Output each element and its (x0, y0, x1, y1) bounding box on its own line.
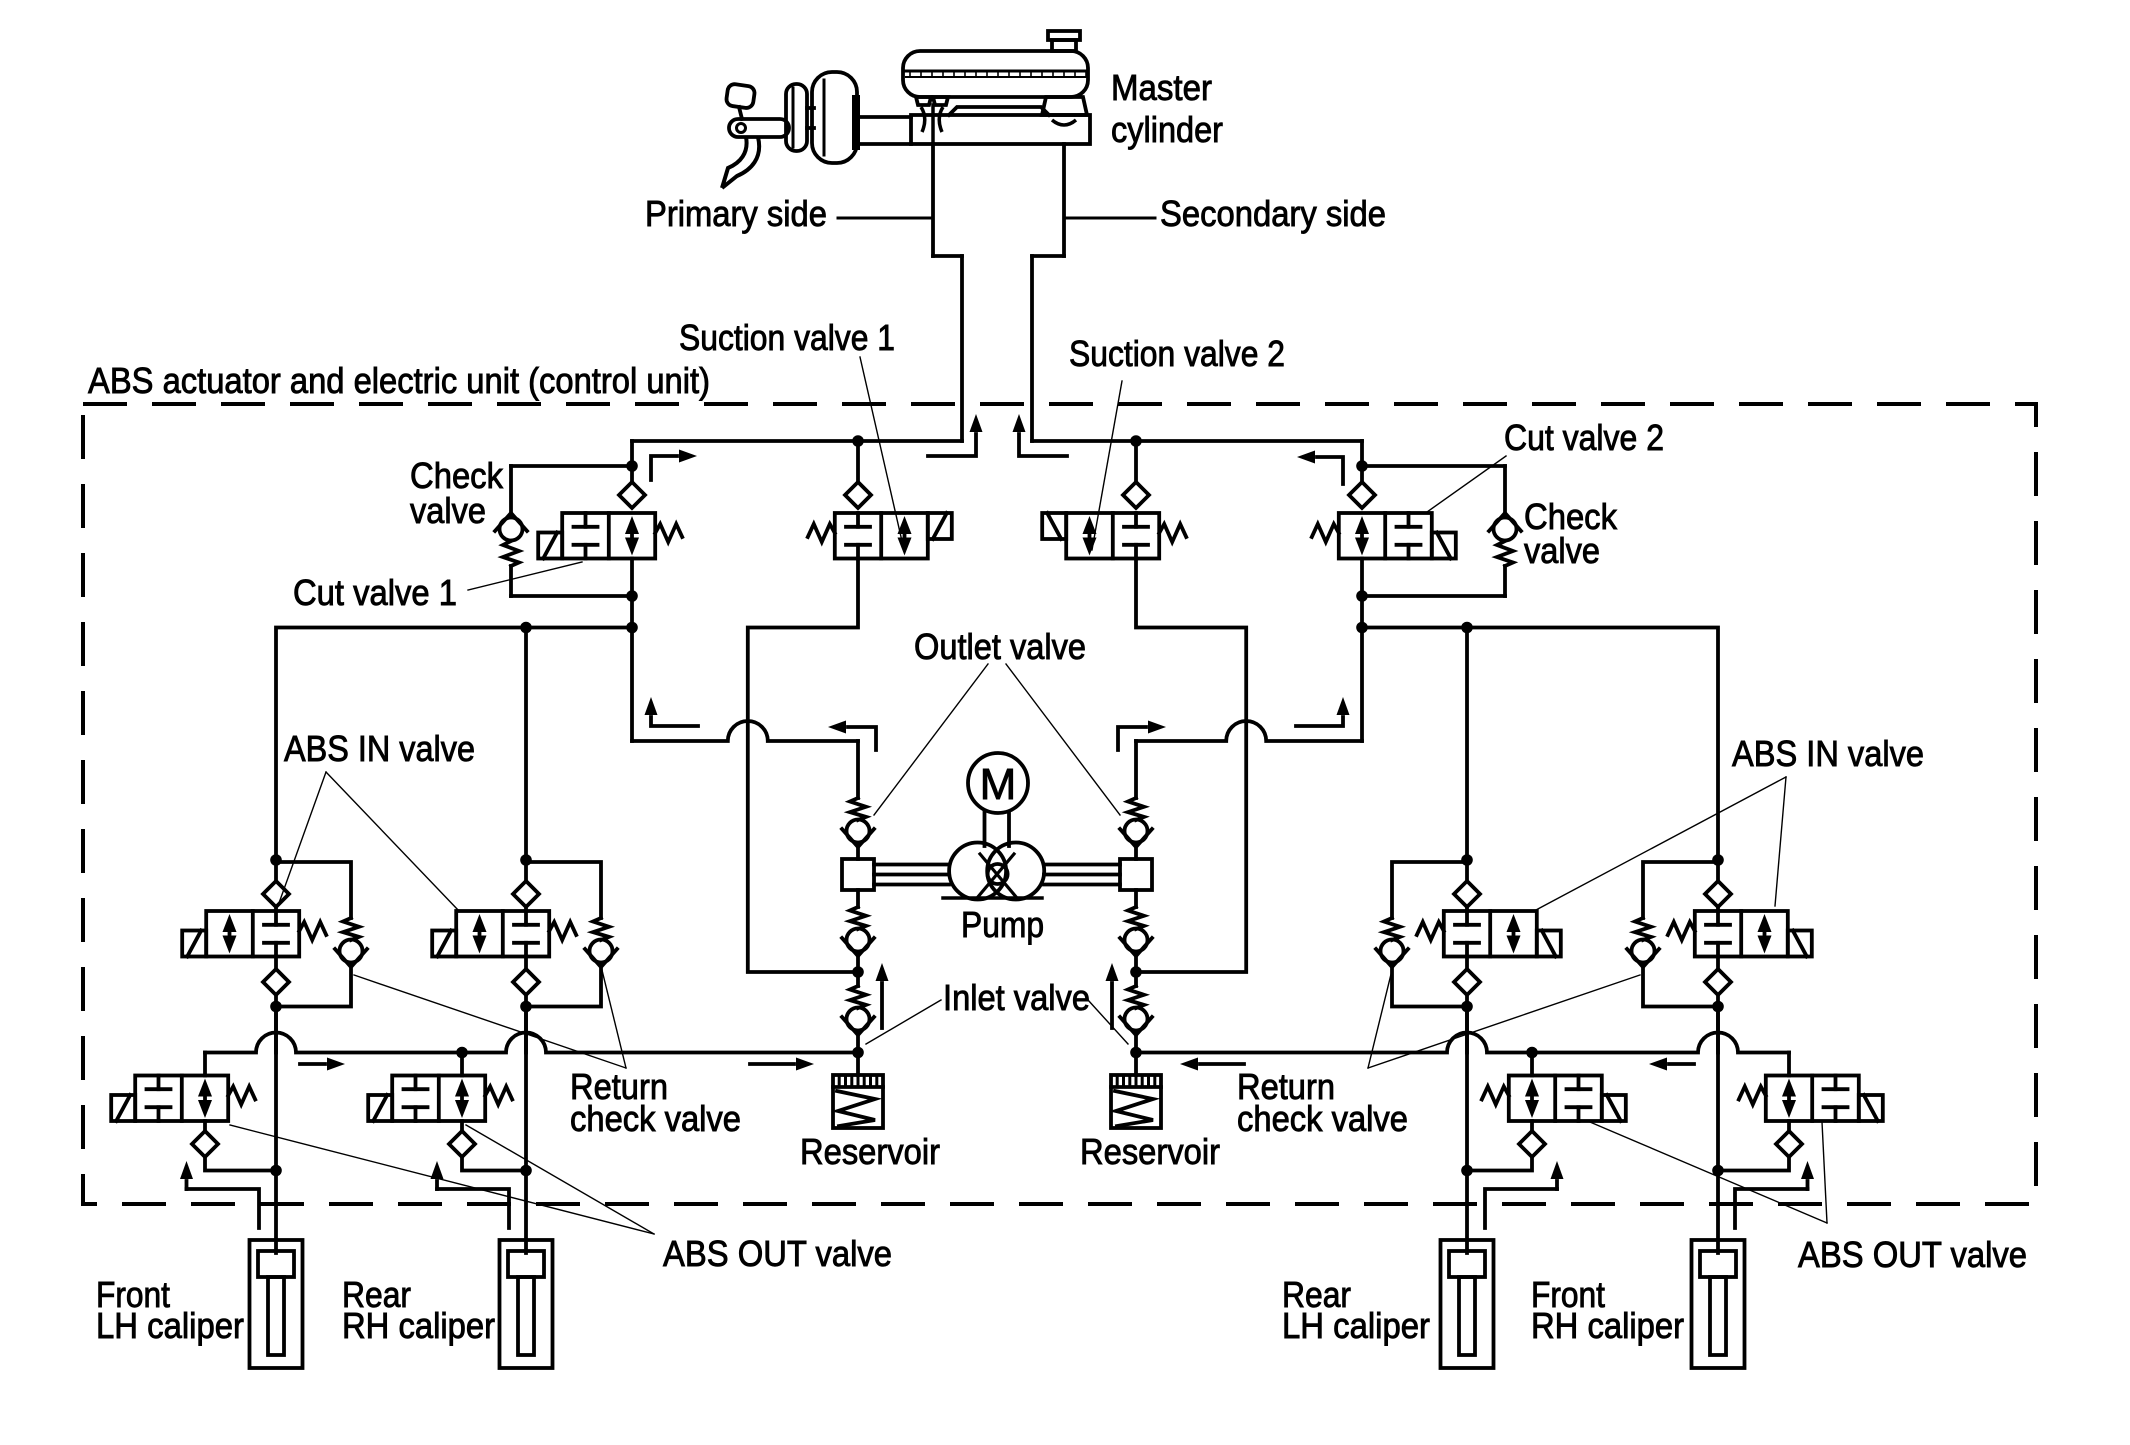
node: check1 join (626, 590, 638, 602)
inlet valve right (1120, 972, 1152, 1054)
label: ABS OUT valve (right) (1798, 1234, 2027, 1275)
wire: OUT rail left (205, 1033, 858, 1053)
node: check2 tap (1356, 460, 1368, 472)
flow arrow: to cut2 (1297, 451, 1343, 485)
label: Return check valve (left) (570, 1066, 741, 1139)
node: reservoir right (1130, 1047, 1142, 1059)
svg-text:Secondary side: Secondary side (1160, 193, 1386, 234)
svg-text:Suction valve 1: Suction valve 1 (679, 317, 895, 358)
node: reservoir left (852, 1047, 864, 1059)
ABS OUT valve 4 (1712, 1053, 1883, 1177)
leader: ABS OUT right b (1822, 1122, 1827, 1223)
label: Check valve (right) (1524, 496, 1618, 571)
wire: cut2 to rail (1360, 559, 1364, 742)
filter diamond: suction2 (1123, 482, 1149, 508)
leader: ABS IN valve left a (279, 772, 326, 903)
rear RH caliper (500, 1240, 553, 1368)
filter diamond: cut1 (619, 482, 645, 508)
ABS OUT valve 1 (111, 1053, 282, 1177)
leader: suction valve 2 (1092, 381, 1122, 550)
wire: FR main mid (1716, 1007, 1720, 1171)
flow arrow: primary return (928, 414, 983, 456)
wire: IN3 drop (1465, 628, 1469, 862)
exhaust marker OUT3 (1485, 1161, 1564, 1228)
wire: suction1 drop (856, 441, 860, 482)
label: Suction valve 1 (679, 317, 895, 358)
wire: check1 bottom (511, 594, 632, 598)
svg-text:M: M (980, 760, 1017, 809)
leader: ABS OUT left a (230, 1125, 654, 1234)
brake pedal (722, 83, 789, 188)
label: Rear RH caliper (342, 1274, 495, 1346)
svg-text:ABS OUT valve: ABS OUT valve (663, 1233, 892, 1274)
label: Rear LH caliper (1282, 1274, 1430, 1346)
label: Reservoir (right) (1080, 1131, 1220, 1172)
label: Suction valve 2 (1069, 333, 1285, 374)
leader: return check right a (1368, 975, 1640, 1068)
leader: cut valve 2 (1427, 456, 1506, 512)
pump shaft right (1044, 865, 1120, 885)
svg-text:Master: Master (1111, 67, 1212, 108)
wire: OUT rail right (1136, 1033, 1789, 1053)
svg-text:cylinder: cylinder (1111, 109, 1223, 150)
outlet check valve right (1120, 741, 1152, 859)
wire: secondary pipe (1030, 256, 1034, 441)
wire: RL caliper line (1465, 1171, 1469, 1254)
wire: cut1 to rail (630, 559, 634, 742)
wire: cut1 drop (630, 441, 634, 482)
label: Cut valve 2 (1504, 417, 1664, 458)
wire: outlet rail left (632, 721, 858, 741)
svg-text:Outlet valve: Outlet valve (914, 626, 1086, 667)
leader: primary side (838, 217, 933, 220)
inlet valve left (842, 972, 874, 1054)
ABS IN valve 2 with return check valve (432, 854, 617, 1052)
label: ABS actuator and electric unit (control unit) (88, 360, 710, 401)
svg-text:Reservoir: Reservoir (1080, 1131, 1220, 1172)
wire: check2 top (1362, 464, 1505, 468)
label: Secondary side (1160, 193, 1386, 234)
ABS OUT valve 3 (1461, 1053, 1626, 1177)
suction valve 2 (1042, 513, 1186, 559)
label: Primary side (645, 193, 827, 234)
filter diamond: cut2 (1349, 482, 1375, 508)
wire: left mid rail (276, 628, 632, 861)
label: Cut valve 1 (293, 572, 457, 613)
flow arrow: outlet right back (1118, 721, 1166, 751)
leader: suction valve 1 (860, 357, 904, 550)
svg-text:ABS IN valve: ABS IN valve (1732, 733, 1924, 774)
node: IN2 mid tap (520, 622, 532, 634)
node: check1 tap (626, 460, 638, 472)
label: ABS IN valve (left) (284, 728, 475, 769)
node: IN3 mid tap (1461, 622, 1473, 634)
flow arrow: outlet left up (645, 697, 699, 726)
leader: outlet valve right (1006, 664, 1120, 815)
node: check2 join (1356, 590, 1368, 602)
wire: right mid rail (1362, 628, 1718, 862)
flow arrow: to cut1 (651, 450, 697, 481)
svg-text:RH caliper: RH caliper (1531, 1305, 1684, 1346)
motor stems (985, 812, 1010, 846)
ABS IN valve 4 with return check valve (1627, 854, 1812, 1052)
motor M (968, 753, 1028, 813)
svg-text:valve: valve (1524, 530, 1600, 571)
node: suction2 tap (1130, 435, 1142, 447)
cut valve 2 (1312, 513, 1456, 559)
wire: suction2 drain (1136, 559, 1246, 973)
front RH caliper (1692, 1240, 1745, 1368)
label: Pump (961, 904, 1044, 945)
wire: FL main mid (274, 1007, 278, 1171)
leader: ABS OUT right a (1590, 1122, 1827, 1223)
check valve CV2 (cut valve 2 bypass) (1489, 466, 1521, 596)
ABS IN valve 1 with return check valve (182, 854, 367, 1052)
leader: inlet valve right (1088, 1000, 1128, 1044)
wire: outlet rail right (1136, 721, 1362, 741)
front LH caliper (250, 1240, 303, 1368)
exhaust marker OUT2 (431, 1161, 510, 1228)
node: suction drain join right (1130, 966, 1142, 978)
node: OUT3 tap (1526, 1047, 1538, 1059)
wire: reservoir stub right (1134, 1053, 1138, 1076)
label: Reservoir (left) (800, 1131, 940, 1172)
svg-text:check valve: check valve (570, 1098, 741, 1139)
reservoir right (1111, 1075, 1161, 1128)
label: Master cylinder (1111, 67, 1223, 150)
leader: return check left b (600, 962, 626, 1068)
wire: primary top rail (632, 439, 962, 443)
svg-text:Inlet valve: Inlet valve (943, 977, 1090, 1018)
svg-text:LH caliper: LH caliper (1282, 1305, 1430, 1346)
wire: FL caliper line (274, 1171, 278, 1254)
cut valve 1 (538, 513, 682, 559)
node: suction drain join left (852, 966, 864, 978)
pump (943, 843, 1044, 900)
wire: FR caliper line (1716, 1171, 1720, 1254)
label: Front RH caliper (1531, 1274, 1684, 1346)
label: Outlet valve (914, 626, 1086, 667)
outlet check valve left (842, 741, 874, 859)
ABS IN valve 3 with return check valve (1376, 854, 1561, 1052)
master cylinder (856, 31, 1090, 144)
wire: secondary top rail (1032, 439, 1362, 443)
svg-text:LH caliper: LH caliper (96, 1305, 244, 1346)
leader: secondary side (1064, 217, 1155, 220)
svg-text:Reservoir: Reservoir (800, 1131, 940, 1172)
node: cut1 rail junction (626, 622, 638, 634)
pump inlet check left upper (842, 890, 874, 972)
node: suction1 tap (852, 435, 864, 447)
wire: check1 top (511, 464, 632, 468)
label: ABS IN valve (right) (1732, 733, 1924, 774)
wire: suction2 drop (1134, 441, 1138, 482)
label: Return check valve (right) (1237, 1066, 1408, 1139)
flow arrow: outlet right up (1296, 697, 1350, 726)
leader: ABS IN valve right b (1775, 777, 1786, 906)
brake booster (786, 72, 860, 163)
rear LH caliper (1441, 1240, 1494, 1368)
wire: RR caliper line (524, 1171, 528, 1254)
node: OUT2 tap (456, 1047, 468, 1059)
svg-text:Pump: Pump (961, 904, 1044, 945)
flow arrow: OUT rail right a (1649, 1058, 1694, 1071)
flow arrow: inlet right (1106, 963, 1119, 1028)
svg-text:valve: valve (410, 490, 486, 531)
reservoir left (833, 1075, 883, 1128)
wire: reservoir stub left (856, 1053, 860, 1076)
leader: ABS IN valve left b (326, 772, 459, 911)
svg-text:ABS IN valve: ABS IN valve (284, 728, 475, 769)
pump shaft left (874, 865, 949, 885)
wire: primary pipe (960, 256, 964, 441)
pump block right (1120, 859, 1152, 890)
wire: check2 bottom (1362, 594, 1505, 598)
leader: return check left a (354, 975, 626, 1068)
flow arrow: outlet left back (828, 721, 876, 751)
node: cut2 rail junction (1356, 622, 1368, 634)
flow arrow: OUT rail left b (750, 1058, 814, 1071)
svg-text:RH caliper: RH caliper (342, 1305, 495, 1346)
wire: RL main mid (1465, 1007, 1469, 1171)
ABS OUT valve 2 (368, 1053, 532, 1177)
leader: return check right b (1368, 962, 1394, 1068)
label: Front LH caliper (96, 1274, 244, 1346)
svg-text:Primary side: Primary side (645, 193, 827, 234)
label: Check valve (left) (410, 455, 504, 531)
label: Inlet valve (943, 977, 1090, 1018)
flow arrow: OUT rail left a (300, 1058, 345, 1071)
suction valve 1 (808, 513, 952, 559)
pump block left (842, 859, 874, 890)
leader: outlet valve left (874, 664, 988, 815)
master cylinder outlet block (933, 144, 1064, 256)
svg-text:ABS OUT valve: ABS OUT valve (1798, 1234, 2027, 1275)
flow arrow: secondary return (1013, 414, 1068, 456)
flow arrow: inlet left (876, 963, 889, 1028)
wire: suction1 drain (748, 559, 858, 973)
svg-text:check valve: check valve (1237, 1098, 1408, 1139)
leader: ABS OUT left b (466, 1125, 654, 1234)
wire: IN2 drop (524, 628, 528, 861)
leader: inlet valve left (866, 1000, 941, 1044)
svg-text:Cut valve 1: Cut valve 1 (293, 572, 457, 613)
flow arrow: OUT rail right b (1180, 1058, 1244, 1071)
leader: cut valve 1 (468, 562, 582, 590)
ABS control unit dashed enclosure (83, 404, 2036, 1204)
svg-text:Cut valve 2: Cut valve 2 (1504, 417, 1664, 458)
wire: cut2 drop (1360, 441, 1364, 482)
svg-text:Suction valve 2: Suction valve 2 (1069, 333, 1285, 374)
label: ABS OUT valve (left) (663, 1233, 892, 1274)
check valve CV1 (cut valve 1 bypass) (495, 466, 527, 596)
exhaust marker OUT1 (180, 1161, 259, 1228)
wire: RR main mid (524, 1007, 528, 1171)
filter diamond: suction1 (845, 482, 871, 508)
pump inlet check right upper (1120, 890, 1152, 972)
svg-text:ABS actuator and electric unit: ABS actuator and electric unit (control … (88, 360, 710, 401)
leader: ABS IN valve right a (1534, 777, 1786, 911)
exhaust marker OUT4 (1735, 1161, 1814, 1228)
